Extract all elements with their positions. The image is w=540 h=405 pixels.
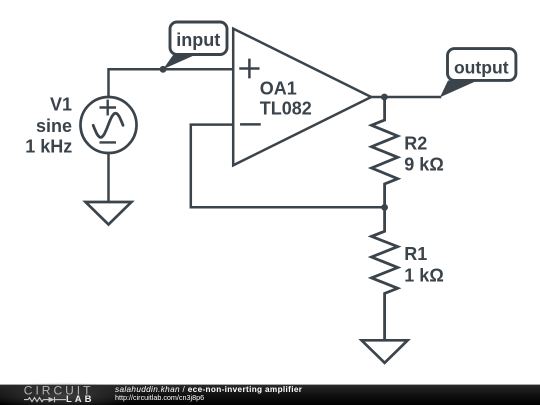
op-amp plus input symbol <box>241 60 259 77</box>
svg-text:R1: R1 <box>404 244 427 264</box>
svg-text:output: output <box>454 57 509 77</box>
output wire from op-amp to output tag <box>371 96 440 99</box>
feedback wire from R1/R2 junction to op-amp inverting input <box>191 125 385 208</box>
wire from V1 bottom to ground <box>107 152 110 202</box>
footer bar <box>0 385 540 405</box>
V1 plus sign <box>101 101 115 114</box>
svg-text:sine: sine <box>36 116 72 136</box>
CircuitLab logo: resistor + diode glyph <box>24 397 66 402</box>
svg-text:1 kHz: 1 kHz <box>25 137 72 157</box>
op-amp minus input symbol <box>241 123 259 126</box>
voltage source V1 circle <box>81 97 137 153</box>
op-amp label OA1 / TL082 <box>260 78 312 118</box>
svg-text:1 kΩ: 1 kΩ <box>404 265 443 285</box>
resistor R1 <box>372 207 398 340</box>
output tag box <box>448 49 516 81</box>
svg-text:LAB: LAB <box>66 394 95 405</box>
V1 sine waveform <box>93 113 123 137</box>
V1 minus sign <box>101 141 115 143</box>
node dot: R1/R2 junction <box>381 204 388 211</box>
svg-text:input: input <box>176 30 220 50</box>
R2 label <box>404 133 443 174</box>
ground (below R1) <box>362 340 408 363</box>
svg-text:http://circuitlab.com/cn3j8p6: http://circuitlab.com/cn3j8p6 <box>115 393 204 402</box>
V1 label <box>25 95 72 157</box>
R1 label <box>404 244 443 286</box>
svg-text:TL082: TL082 <box>260 99 312 119</box>
footer logo glow <box>0 382 137 405</box>
node dot: output junction <box>381 94 388 101</box>
svg-text:9 kΩ: 9 kΩ <box>404 155 443 175</box>
input tag pointer <box>163 55 196 70</box>
svg-text:OA1: OA1 <box>260 78 297 98</box>
svg-text:R2: R2 <box>404 133 427 153</box>
wire from V1 top to op-amp non-inverting input <box>109 69 234 98</box>
svg-text:V1: V1 <box>50 95 72 115</box>
resistor R2 <box>372 97 398 207</box>
node dot: input junction <box>160 66 167 73</box>
ground (below V1) <box>86 202 132 225</box>
output tag pointer <box>440 81 478 98</box>
input tag box <box>170 22 227 55</box>
op-amp OA1 triangle <box>233 29 371 166</box>
